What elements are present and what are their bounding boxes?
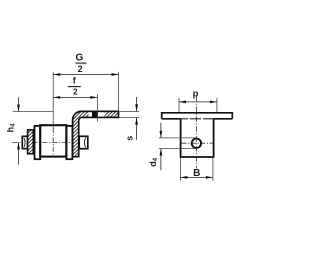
flange (bent arm seen from front), no bottom edge (162, 113, 233, 119)
dimension h4 upper line with down arrow (18, 97, 20, 111)
bent attachment plate (section, hatched) (73, 111, 119, 156)
extension line plate top (for h4) (13, 111, 53, 113)
bolt hole d4 (192, 139, 201, 148)
dimension d4 upper line with down arrow (160, 123, 162, 138)
svg-text:G: G (76, 52, 84, 63)
svg-text:p: p (193, 89, 199, 100)
inner plate right (66, 126, 72, 159)
svg-text:s: s (125, 136, 135, 141)
svg-text:B: B (193, 168, 200, 179)
dimension s upper line with down arrow (136, 97, 138, 111)
dimension p line (179, 101, 217, 103)
solid block in arm hole (92, 112, 98, 117)
hole gap in bent plate arm (89, 112, 105, 116)
svg-text:2: 2 (78, 64, 83, 74)
pin right end arc (84, 138, 85, 148)
pin left end (22, 136, 27, 148)
inner plate left (35, 126, 41, 159)
extension lines plate width (for B) (179, 158, 181, 181)
pin right end (79, 136, 88, 148)
flange bottom edge solid right (214, 118, 233, 120)
flange bottom edge solid left (162, 118, 181, 120)
dimension B line (180, 176, 213, 178)
extension lines (for p) (178, 98, 180, 112)
dimension d4 lower line with up arrow (160, 149, 162, 171)
centerline pin axis (left view) (12, 141, 86, 143)
centerline vertical (right view) (196, 97, 198, 169)
dimension h4 lower line with up arrow (18, 142, 20, 164)
extension lines hole top/bottom (for d4) (159, 137, 197, 139)
extension line chain axis (for G/2 and f/2) (52, 72, 54, 129)
flange bottom hidden edge dashes (181, 118, 188, 120)
extension lines plate thickness (for s) (119, 110, 139, 112)
pin left end arc (24, 138, 25, 148)
outer plate left (hatched) (28, 130, 34, 154)
dimension s lower line with up arrow (136, 118, 138, 140)
extension line hole center (for f/2) (96, 94, 98, 122)
centerline horizontal through hole (182, 142, 213, 144)
dimension G/2 line (53, 74, 118, 76)
extension line plate end (for G/2) (118, 72, 120, 111)
vertical plate of lug (no top edge) (181, 119, 214, 157)
centerline chain vertical axis in roller (52, 128, 54, 157)
svg-text:2: 2 (73, 87, 78, 96)
dimension f/2 line (53, 96, 97, 98)
roller (40, 125, 66, 156)
